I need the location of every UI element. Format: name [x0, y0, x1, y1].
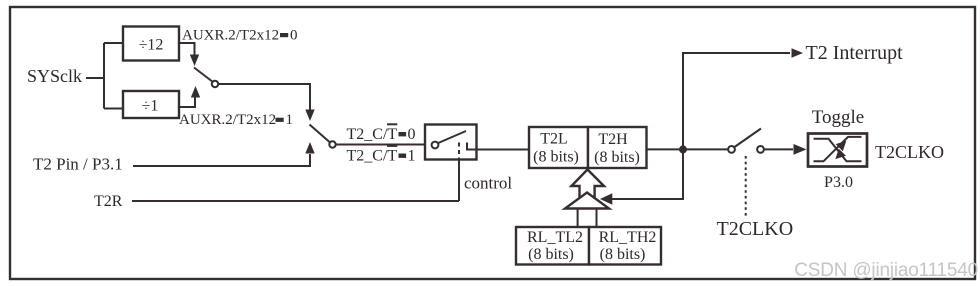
arrow right into toggle: [794, 144, 807, 155]
register box RL_TH2: [589, 227, 661, 265]
register box T2L: [529, 127, 588, 168]
svg-text:÷1: ÷1: [142, 98, 159, 115]
wire switch to toggle arrow: [764, 148, 793, 150]
svg-text:0: 0: [290, 28, 298, 44]
svg-text:(8 bits): (8 bits): [600, 246, 646, 263]
arrow right T2 Interrupt: [792, 48, 804, 57]
svg-text:AUXR.2/T2x12: AUXR.2/T2x12: [182, 28, 279, 44]
switch1 pole circle: [212, 81, 218, 87]
svg-text:T2L: T2L: [540, 130, 568, 147]
arrow up switch1 bottom contact: [191, 86, 200, 98]
svg-text:1: 1: [408, 147, 416, 164]
control switch blade: [438, 131, 466, 143]
toggle box P3.0: [808, 134, 867, 167]
svg-text:T2H: T2H: [598, 131, 628, 148]
svg-text:P3.0: P3.0: [824, 174, 853, 191]
svg-text:T2_C/T: T2_C/T: [347, 126, 398, 143]
svg-text:control: control: [464, 174, 512, 193]
output switch contact circle right: [757, 146, 764, 153]
svg-text:T2 Interrupt: T2 Interrupt: [806, 42, 904, 64]
control dashed actuation line: [458, 143, 460, 160]
wire branch to div12: [104, 42, 123, 44]
wire branch to div1: [104, 108, 123, 110]
control switch fixed contact and output wire to T2L: [467, 143, 529, 150]
output switch pole circle left: [728, 146, 735, 153]
toggle symbol arrow down-left: [835, 149, 846, 159]
wire T2 Pin to switch2 bottom contact: [133, 154, 310, 166]
control box: [425, 125, 477, 160]
reload hollow arrow lower chevron: [565, 193, 609, 209]
output switch blade: [735, 129, 762, 148]
svg-text:T2R: T2R: [94, 193, 123, 210]
svg-text:(8 bits): (8 bits): [528, 246, 574, 263]
toggle symbol crossover path bottom-left to top-right: [814, 137, 862, 161]
register box T2H: [588, 127, 647, 168]
register box RL_TL2: [516, 227, 589, 265]
wire switch2 to control box: [336, 144, 432, 146]
reload shaft to RL registers: [578, 209, 597, 228]
svg-text:AUXR.2/T2x12: AUXR.2/T2x12: [179, 112, 276, 128]
switch2 blade: [310, 125, 330, 143]
svg-text:T2 Pin / P3.1: T2 Pin / P3.1: [33, 155, 123, 174]
svg-text:Toggle: Toggle: [812, 107, 865, 128]
svg-text:1: 1: [286, 112, 294, 128]
arrow down switch2 top contact: [305, 110, 314, 122]
switch2 pole circle: [329, 141, 335, 147]
svg-text:T2CLKO: T2CLKO: [875, 142, 944, 162]
svg-text:T2CLKO: T2CLKO: [717, 218, 794, 240]
svg-text:(8 bits): (8 bits): [594, 149, 640, 166]
dotted control line T2CLKO: [745, 156, 747, 216]
svg-text:RL_TH2: RL_TH2: [599, 229, 657, 246]
svg-text:0: 0: [408, 126, 416, 143]
toggle symbol arrow up-right: [836, 141, 847, 151]
arrow up switch2 bottom contact: [305, 142, 314, 154]
wire switch1 to switch2 top contact: [218, 84, 310, 113]
svg-text:RL_TL2: RL_TL2: [527, 229, 583, 246]
wire T2H to node: [647, 148, 730, 150]
arrow down switch1 top contact: [190, 55, 199, 67]
svg-text:(8 bits): (8 bits): [533, 149, 579, 166]
svg-text:T2_C/T: T2_C/T: [347, 147, 398, 164]
control switch pole circle: [432, 142, 439, 149]
divider box /1: [123, 91, 179, 118]
node junction dot: [679, 145, 687, 153]
arrow left into reload: [600, 193, 612, 205]
divider box /12: [123, 27, 179, 61]
toggle symbol crossover path top-left to bottom-right: [814, 139, 862, 162]
svg-text:SYSclk: SYSclk: [27, 66, 82, 86]
switch1 blade: [194, 68, 212, 82]
wire T2R: [132, 200, 459, 202]
svg-text:÷12: ÷12: [139, 36, 164, 53]
reload hollow arrow upper chevron with shaft: [571, 170, 604, 202]
wire div12 to switch1 top contact: [179, 43, 195, 55]
wire branch vertical: [103, 43, 105, 109]
wire SYSclk to branch: [86, 77, 104, 79]
wire node down to reload arrow (feedback): [612, 149, 683, 199]
wire node up and to T2 Interrupt arrow: [683, 53, 790, 149]
wire div1 to switch1 bottom contact: [179, 97, 195, 107]
wire control to T2R line: [458, 160, 460, 202]
svg-text:CSDN @jinjiao111540: CSDN @jinjiao111540: [794, 260, 978, 281]
